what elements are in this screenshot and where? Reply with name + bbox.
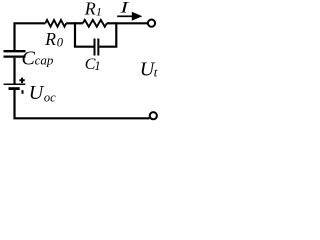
terminal circle top (+) bbox=[148, 20, 155, 27]
wire: battery to bottom-right terminal bbox=[15, 90, 150, 118]
wire: Ccap to battery bbox=[13, 58, 15, 84]
wire: left branch top segment + top wire to R0 bbox=[15, 23, 46, 50]
wire: box top branch left stub bbox=[75, 22, 83, 24]
capacitor Ccap top plate bbox=[4, 50, 26, 52]
svg-text:oc: oc bbox=[44, 90, 56, 104]
wire: R0 to parallel box left bar bbox=[66, 22, 76, 24]
capacitor C1 right plate bbox=[97, 39, 99, 56]
svg-text:R: R bbox=[84, 0, 96, 19]
svg-text:U: U bbox=[29, 82, 45, 104]
battery Uoc plus sign bbox=[19, 78, 24, 83]
wire: box to top-right terminal bbox=[116, 22, 148, 24]
resistor R1 bbox=[83, 20, 107, 27]
wire: box left bar and bottom branch left segment bbox=[75, 22, 94, 47]
current arrow I bbox=[117, 15, 133, 17]
svg-text:0: 0 bbox=[57, 35, 64, 49]
terminal circle bottom (-) bbox=[150, 112, 157, 119]
svg-text:1: 1 bbox=[96, 4, 102, 18]
battery Uoc long plate (+) bbox=[4, 83, 26, 85]
svg-text:cap: cap bbox=[35, 53, 54, 68]
resistor R0 bbox=[45, 20, 66, 27]
wire: R1 to box right bar bbox=[107, 22, 117, 24]
capacitor Ccap bottom plate bbox=[4, 55, 26, 57]
svg-text:C: C bbox=[22, 48, 36, 70]
svg-text:t: t bbox=[154, 64, 158, 79]
wire: box right bar and bottom branch right segment bbox=[99, 22, 116, 47]
svg-text:1: 1 bbox=[94, 59, 100, 73]
svg-text:R: R bbox=[44, 29, 56, 49]
svg-text:I: I bbox=[119, 0, 129, 17]
battery tick mark bbox=[22, 90, 24, 94]
battery Uoc short thick plate (-) bbox=[9, 87, 20, 90]
capacitor C1 left plate bbox=[94, 39, 96, 56]
